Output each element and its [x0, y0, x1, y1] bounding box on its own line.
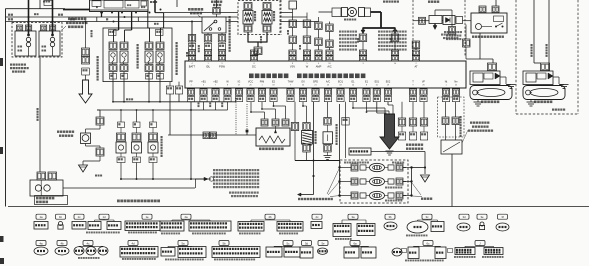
connector item 5b [219, 241, 229, 246]
wire E01 to arrow [376, 102, 378, 113]
connector item 1e [142, 214, 152, 219]
ECU top pin S1 [359, 50, 366, 56]
gauge row 3 [351, 192, 358, 199]
pickup coil unit x153 [152, 110, 154, 122]
svg-text:1e: 1e [145, 215, 149, 219]
connector item 3b [385, 214, 395, 219]
bus label small 2 [70, 18, 72, 20]
wire to ground [99, 156, 101, 161]
note text block 2 [229, 192, 231, 194]
diag vertical label [460, 116, 462, 118]
BATT pin chain [191, 22, 193, 35]
svg-text:IDL: IDL [206, 65, 211, 69]
svg-text:4a: 4a [39, 241, 43, 245]
relay unit R1 [109, 42, 117, 50]
svg-text:E02: E02 [386, 81, 391, 84]
wire VCC down [250, 102, 252, 112]
vertical label right of pickups [161, 136, 163, 138]
svg-text:BATT: BATT [189, 65, 196, 69]
big ground arrow [380, 114, 399, 149]
svg-text:+B2: +B2 [213, 81, 218, 84]
wire label t10 [390, 38, 392, 40]
svg-text:5b: 5b [222, 241, 226, 245]
label sub junction box [68, 18, 71, 21]
label power switch [211, 1, 213, 3]
note text block [213, 169, 215, 171]
fuel pump lower pin [85, 144, 87, 147]
component chain x292 [289, 1, 297, 9]
svg-text:DC: DC [252, 65, 256, 69]
starter 1 solenoid [470, 71, 500, 85]
relay unit R2 [120, 42, 128, 50]
connector item 1d [99, 214, 109, 219]
dashed separator x465 [464, 0, 466, 57]
component chain x85 with down arrow [85, 22, 87, 49]
connector item 2c [312, 214, 322, 219]
connector item 3a [348, 214, 358, 219]
connector item 1c [74, 214, 84, 219]
left margin mark 1b [0, 147, 3, 154]
wire PP down [190, 102, 192, 179]
wire label t4 [198, 45, 200, 47]
wire label t9 [357, 38, 359, 40]
oxygen sensor label [315, 131, 317, 133]
sub junction box (dashed) [12, 23, 62, 58]
label fuel pump relay vertical [97, 56, 99, 58]
feed bus thick top-left [63, 9, 90, 11]
dashed separator x578 [577, 0, 579, 114]
wire E1b to arrow [366, 102, 368, 111]
distributor pins [442, 117, 449, 125]
svg-text:PP: PP [189, 81, 193, 84]
starter 1 pin [488, 63, 497, 71]
dotted wire x236 [235, 98, 237, 135]
high tension cord label [117, 200, 120, 203]
label below junction box [10, 64, 12, 66]
starter 1 motor [470, 86, 512, 100]
wire relay K2 feed [52, 0, 54, 35]
jog to ignition line [195, 179, 197, 188]
distributor box [441, 140, 462, 154]
fuse box FB [90, 0, 149, 12]
svg-text:3f: 3f [501, 215, 504, 219]
wire top stub x40 [39, 0, 41, 9]
connector item J [475, 241, 485, 246]
AT note text [444, 31, 446, 33]
fuel pump [81, 133, 91, 144]
noise filter [319, 11, 333, 13]
fuse drop thick 2 [118, 12, 120, 31]
water temp sensor [327, 102, 329, 118]
ECU box [185, 61, 466, 88]
starter 1 label [481, 101, 484, 104]
wire stub x177 [176, 0, 178, 7]
wire PIM down [261, 102, 263, 109]
wire link to meter section [295, 160, 340, 162]
connector item 5e [318, 241, 328, 246]
wire code text b [209, 103, 211, 105]
dashed separator x413 [412, 0, 414, 57]
connector item 6b [392, 248, 402, 256]
ECU top pin AT [412, 50, 419, 56]
svg-text:6a: 6a [353, 241, 357, 245]
svg-text:VF: VF [422, 81, 426, 84]
section divider line [8, 206, 589, 208]
ground under arrow [386, 150, 394, 152]
hline distributor bus [168, 134, 256, 136]
bus wire y102 [113, 101, 236, 103]
wire AT pin [415, 41, 417, 50]
starter relay pins top [479, 6, 486, 13]
connector item 5c [283, 241, 293, 246]
page border top [6, 8, 66, 10]
bus junction dots [101, 12, 103, 14]
svg-text:PSW: PSW [219, 65, 225, 69]
connector item 3c [422, 214, 432, 219]
starter relay [471, 13, 507, 33]
junction strip ends [96, 17, 98, 22]
svg-text:AT: AT [414, 65, 418, 69]
ignition coil label box [35, 196, 68, 205]
VSV solenoid at x267 [263, 3, 271, 10]
chain below frame right b [178, 82, 180, 86]
connector item 4c [83, 241, 93, 246]
label idle switch [188, 8, 191, 11]
svg-text:3d: 3d [462, 215, 466, 219]
wire label t2 [91, 30, 93, 32]
connector item 6c side tags [402, 249, 407, 253]
svg-text:VSV: VSV [290, 65, 295, 69]
fuse drop thick 3 [131, 12, 133, 31]
starter relay label [472, 36, 474, 38]
feed wire x549 [548, 0, 550, 70]
svg-text:1a: 1a [39, 215, 43, 219]
wire DC from VSV [253, 55, 255, 56]
junction bus y179 [121, 178, 211, 180]
bus y102 label [126, 98, 128, 100]
wire meter top link [371, 151, 425, 153]
starter 2 ground right [558, 77, 560, 84]
relay K1 [15, 31, 36, 56]
relay unit R3 [145, 42, 153, 50]
svg-text:5a: 5a [181, 241, 185, 245]
pickup coil unit x136.5 [136, 110, 138, 122]
wire label t7 [287, 30, 289, 32]
wire Ne down [455, 102, 457, 117]
svg-text:4b: 4b [60, 241, 64, 245]
bus label small 4 [8, 18, 10, 20]
wire Nt down [445, 102, 447, 117]
bus wire y21 [6, 21, 319, 23]
svg-text:3e: 3e [480, 215, 484, 219]
wire ignition feed [39, 57, 41, 173]
wire relay K1 feed [28, 0, 30, 35]
ECU top pin AMP [315, 50, 322, 56]
label AT [428, 1, 430, 3]
vertical label text in relay frame [137, 44, 139, 46]
connector item 4d [128, 241, 138, 246]
IDL pin chain [207, 33, 209, 35]
wire +B2 down [215, 102, 217, 110]
wire label t8 [299, 45, 301, 47]
relay unit R4 [156, 42, 164, 50]
svg-text:SPD: SPD [313, 81, 318, 84]
AT dashed minibox [438, 97, 465, 137]
starter 2 motor [523, 86, 565, 100]
throttle sensor vertical label [229, 16, 231, 18]
dotted wire x247 [246, 104, 248, 131]
feed wire x534 [533, 0, 535, 63]
label above x155 [150, 1, 152, 3]
svg-text:IG: IG [238, 81, 241, 84]
AT feed comp [413, 20, 429, 22]
diode in AT row [443, 16, 455, 25]
ECU top pin DC [250, 50, 257, 56]
note arrow [195, 178, 204, 180]
throttle switch feed [216, 0, 218, 8]
wire relay R4 feed [113, 30, 115, 42]
left margin mark [0, 58, 3, 66]
fuse drop thick 1 [101, 12, 103, 18]
svg-text:EO1: EO1 [338, 81, 344, 84]
wire road switch [313, 102, 315, 195]
svg-text:2b: 2b [268, 215, 272, 219]
wire code text c [221, 103, 223, 105]
road switch label [298, 198, 300, 200]
relay fuse [465, 25, 467, 40]
wire label t5 [186, 52, 188, 54]
arrow down to pin S2 [394, 28, 396, 31]
connector item 3f [498, 214, 508, 219]
oxygen sensor [302, 102, 304, 106]
connector item 3d [459, 214, 469, 219]
svg-text:AMP: AMP [316, 65, 322, 69]
relay K2 [39, 31, 60, 56]
thick wire from filter [371, 11, 382, 13]
svg-text:VCC: VCC [248, 81, 253, 84]
starter 1 ground bottom [477, 100, 479, 103]
wire relay to starter1 [479, 33, 481, 59]
svg-text:OX: OX [301, 81, 305, 84]
starter 1 ground right [505, 77, 507, 84]
throttle position switch [202, 17, 226, 33]
check connector label [406, 144, 408, 146]
left margin mark 2 [0, 236, 4, 242]
ECU top pin BATT [188, 50, 195, 56]
sensor chain A [294, 102, 296, 123]
starter 2 pin [541, 63, 550, 71]
ignition coil pins [37, 172, 46, 180]
distributor label [470, 122, 472, 124]
filter caption [344, 19, 346, 21]
connector item 5a [178, 241, 188, 246]
wire +B1 down [203, 102, 205, 110]
connector item 5d [302, 241, 312, 246]
note text column A [339, 31, 341, 33]
svg-text:3a: 3a [351, 215, 355, 219]
pressure sensor label [259, 148, 262, 151]
component chain x307 [306, 13, 308, 21]
connector item 6a [350, 241, 360, 246]
elbow junction dots [250, 111, 252, 113]
AT component [429, 16, 442, 24]
svg-text:1d: 1d [102, 215, 106, 219]
svg-text:1b: 1b [59, 215, 63, 219]
pickup coil unit x121 [120, 110, 122, 122]
ground fuel pump [79, 165, 88, 172]
svg-text:5e: 5e [321, 241, 325, 245]
bus wire y110 [97, 109, 228, 111]
top small comp [44, 1, 52, 6]
wire label t1 [34, 13, 36, 15]
pin chain x363 [359, 34, 367, 42]
svg-text:3b: 3b [388, 215, 392, 219]
svg-text:THW: THW [288, 81, 294, 84]
pin chain x395 [391, 34, 399, 42]
component chain x329 [329, 22, 331, 25]
wire code text a [198, 103, 200, 105]
connector item 4a [36, 241, 46, 246]
gauge row 2 [351, 178, 358, 185]
wire label t6 [260, 36, 262, 38]
feed wire x163 [163, 13, 165, 28]
wire starter2 feeds [534, 62, 541, 64]
feed wire x155 [154, 0, 156, 13]
leader lines meter [412, 183, 421, 195]
fuel pump resistor [96, 117, 104, 125]
wire code on bus [95, 175, 97, 177]
connector item 4b [57, 241, 67, 246]
meter label [421, 198, 423, 200]
ignition coil [30, 180, 63, 196]
left margin mark 3 [0, 258, 4, 264]
label boxes on frame [109, 30, 117, 36]
note text column B [378, 31, 380, 33]
svg-text:A/C: A/C [326, 81, 330, 84]
page border left [5, 9, 7, 207]
wire E02 to arrow [387, 102, 389, 105]
svg-text:A/C: A/C [327, 65, 331, 69]
chain below frame right a [169, 82, 171, 86]
bus wire y17 [6, 16, 308, 18]
ground meter [421, 175, 430, 182]
check connector pins [398, 118, 405, 126]
starter 2 solenoid [523, 71, 553, 85]
wire label t3 [154, 23, 156, 25]
component chain x318 [318, 17, 320, 22]
igniter component a [203, 132, 210, 139]
wire T down [401, 102, 403, 118]
leader lines switch [327, 169, 339, 194]
wire AT pin drop [415, 49, 417, 51]
dashed separator x516 [515, 0, 517, 114]
VSV solenoid at x248 [244, 3, 252, 10]
igniter component b [210, 132, 217, 139]
AT chain comp [451, 10, 453, 27]
ECU top pin A/C [326, 50, 333, 56]
starter 2 label [534, 101, 537, 104]
wire distributor down [451, 154, 453, 207]
wire VSV join [247, 32, 249, 42]
pressure sensor [256, 128, 290, 146]
relay block frame [103, 28, 172, 82]
wire E1 to arrow [352, 102, 354, 108]
dashed bottom y114 [516, 113, 578, 115]
ECU top pin S2 [391, 50, 398, 56]
ECU top pin PSW [218, 50, 225, 56]
fuse drop right edge [147, 12, 149, 29]
wire BATT from bus [191, 22, 193, 51]
svg-text:2a: 2a [184, 215, 188, 219]
VSV box (dashed) [238, 1, 280, 35]
ECU top pin IDL [204, 50, 211, 56]
svg-text:E01: E01 [375, 81, 380, 84]
connector item 3e [477, 214, 487, 219]
connector item 2b [265, 214, 275, 219]
connector item 1a [36, 214, 46, 219]
gauge row 1 [351, 164, 358, 171]
note text left [441, 34, 443, 36]
ECU top pin VSV [289, 50, 296, 56]
svg-text:5d: 5d [305, 241, 309, 245]
wire ignition to distributor [63, 187, 195, 189]
label MT [552, 109, 554, 111]
svg-text:Nt: Nt [445, 81, 448, 84]
label tachometer [383, 1, 385, 3]
svg-text:+B1: +B1 [201, 81, 206, 84]
connector item 2a [181, 214, 191, 219]
ECU label engine control computer [249, 74, 254, 79]
PSW pin chain [221, 33, 223, 35]
meter box (dashed) [340, 160, 408, 203]
bus wire y13 [164, 12, 293, 14]
meter feed connector [349, 148, 371, 155]
svg-text:PIM: PIM [260, 81, 264, 84]
svg-text:4d: 4d [131, 241, 135, 245]
connector item 1b [56, 214, 66, 219]
ECU top pin W [303, 50, 310, 56]
bus label small 3 [8, 14, 10, 16]
meter right bus [411, 168, 413, 196]
pressure sensor pins [261, 119, 268, 126]
meter left feed bus [339, 104, 341, 196]
dashed separator x281 [280, 0, 282, 35]
wire fuel pump feed [99, 110, 101, 117]
wire E2 down [273, 102, 275, 106]
bus label small 1 [58, 14, 60, 16]
wire W down [227, 102, 229, 110]
gauge captions [385, 187, 387, 189]
connector item 6c [423, 241, 433, 246]
label box on meter feed [342, 118, 349, 126]
arrow down to pin S1 [362, 28, 364, 31]
starter 2 ground bottom [530, 100, 532, 103]
